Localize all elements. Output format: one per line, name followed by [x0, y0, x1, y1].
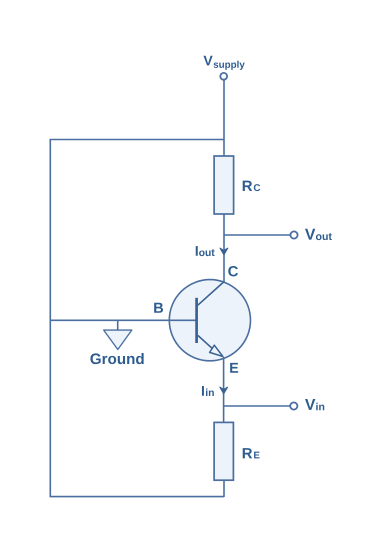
arrow Iin: [220, 387, 228, 394]
ground stub wire: [117, 320, 119, 330]
transistor Q1 base bar: [195, 298, 198, 343]
resistor RE: [214, 422, 233, 480]
arrow Iout: [220, 248, 228, 255]
resistor RC: [214, 156, 234, 214]
wire supply to RC: [223, 80, 225, 157]
transistor Q1 emitter arrowhead: [210, 345, 223, 356]
label RE: [243, 448, 253, 458]
label pin B: [154, 303, 163, 313]
wire Vout branch: [224, 234, 290, 236]
terminal Vsupply: [220, 73, 227, 80]
wire Vin branch: [224, 405, 290, 407]
transistor Q1 collector line: [198, 282, 224, 305]
label pin E: [230, 363, 238, 373]
label Ground: [90, 353, 143, 364]
terminal Vin: [290, 402, 297, 409]
transistor Q1 emitter line: [198, 335, 213, 348]
label pin C: [228, 266, 238, 276]
wire base: [50, 319, 197, 321]
label Vsupply: [204, 56, 213, 66]
label Iout: [196, 246, 198, 256]
label Vin: [305, 399, 315, 410]
wire left loop (top, left, bottom): [50, 140, 224, 497]
wire RC to collector: [223, 214, 225, 283]
label RC: [243, 181, 253, 191]
ground: [104, 330, 132, 349]
wire RE to bottom: [223, 480, 225, 497]
transistor Q1 body: [169, 280, 250, 361]
terminal Vout: [290, 231, 297, 238]
label Iin: [202, 386, 204, 396]
label Vout: [305, 229, 315, 240]
wire emitter to RE: [223, 357, 225, 423]
